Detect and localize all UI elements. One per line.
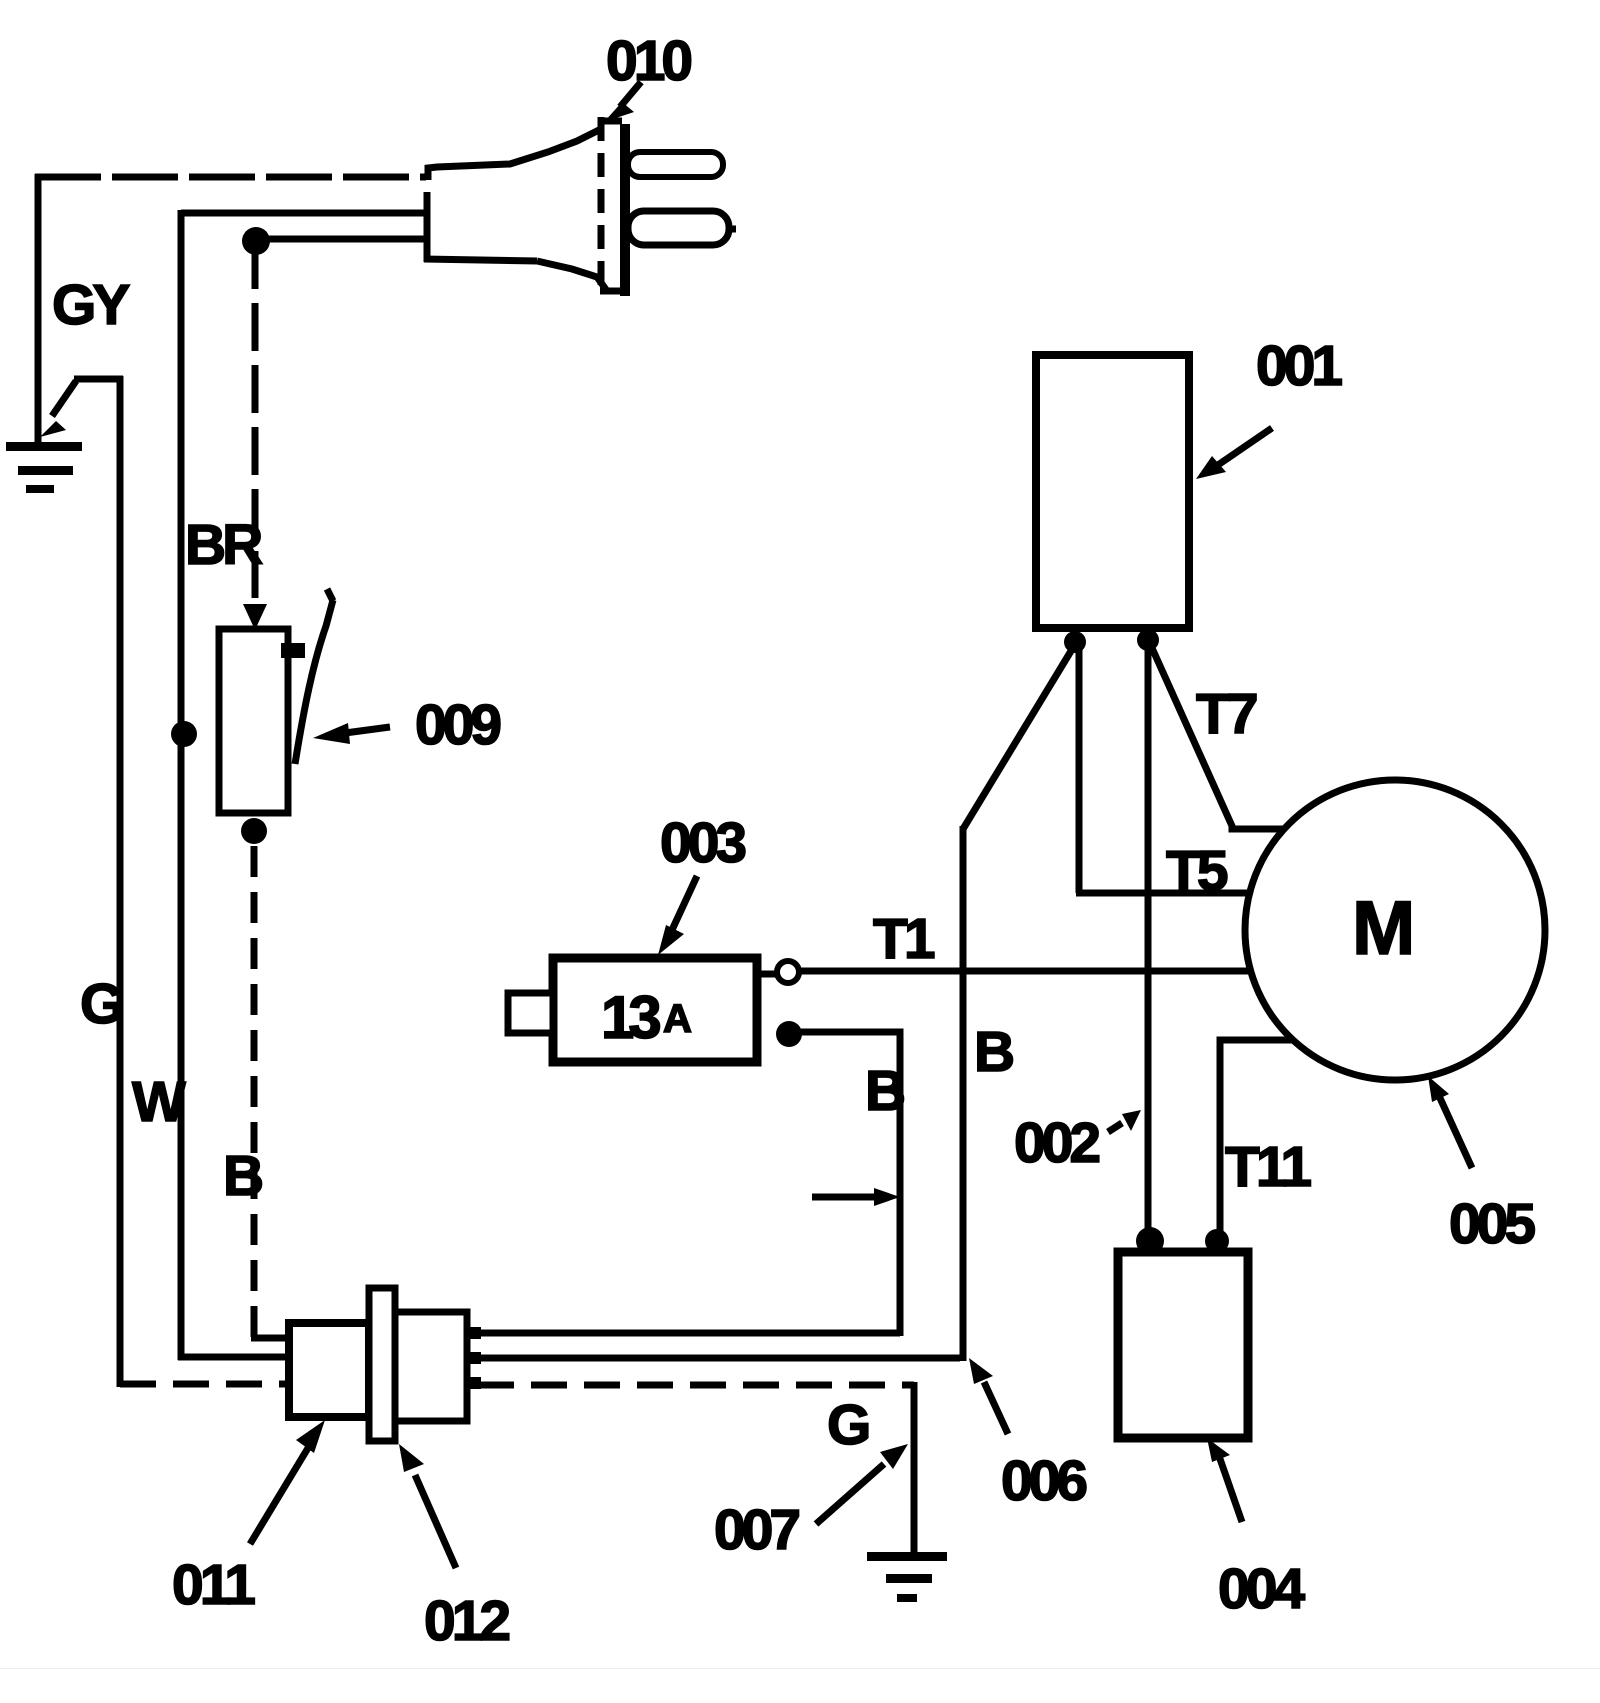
svg-text:B: B: [974, 1020, 1013, 1084]
wire W top horizontal (to plug): [181, 210, 428, 217]
003 upper terminal circle: [757, 961, 799, 983]
label 006 with arrow: [969, 1358, 1086, 1513]
node junction BR (on plug middle lead): [242, 227, 270, 255]
svg-text:004: 004: [1218, 1557, 1305, 1621]
wire BR vertical dashed to thermal switch: [252, 241, 259, 598]
svg-text:GY: GY: [52, 273, 130, 337]
svg-text:13: 13: [601, 984, 660, 1051]
connector plug 012 body: [395, 1312, 467, 1421]
svg-text:006: 006: [1001, 1449, 1086, 1513]
label 007 with arrow: [714, 1444, 908, 1562]
wire B vertical dashed below 009: [251, 846, 258, 1341]
switch 001 body: [1036, 355, 1189, 628]
wire B inner (003 to connector): [789, 1032, 900, 1336]
svg-text:B: B: [865, 1059, 904, 1123]
label 004 with arrow: [1207, 1438, 1305, 1621]
012 terminal stubs: [465, 1327, 481, 1389]
motor 005 circle: [1245, 780, 1545, 1080]
node 003 lower terminal: [776, 1021, 802, 1047]
wire T1: [799, 968, 1252, 975]
svg-text:G: G: [827, 1393, 868, 1457]
svg-text:M: M: [1352, 886, 1415, 971]
wire GY top horizontal (mains to plug): [35, 174, 426, 181]
svg-text:B: B: [223, 1144, 262, 1208]
node below 009: [241, 818, 267, 844]
009 lever: [295, 600, 333, 764]
wire harness bottom (G) dashed from connector: [478, 1382, 914, 1389]
ground symbol left: [6, 442, 82, 493]
connector body 011: [289, 1323, 369, 1417]
svg-text:BR: BR: [185, 513, 262, 577]
wire B outer vertical (to motor circuit): [960, 826, 967, 1361]
label 011 with arrow: [172, 1420, 325, 1617]
node capacitor left terminal: [1136, 1227, 1164, 1255]
svg-text:005: 005: [1449, 1192, 1535, 1256]
label 010 with arrow: [604, 29, 691, 122]
label 001 with arrow: [1196, 334, 1342, 479]
plug prong upper: [628, 152, 723, 177]
wire T7 diagonal: [1152, 648, 1288, 829]
wire BR short horizontal to plug: [256, 236, 428, 243]
label 005 with arrow: [1428, 1076, 1535, 1256]
wire GY vertical: [35, 174, 42, 445]
svg-text:002: 002: [1014, 1111, 1099, 1175]
plug face plate: [620, 124, 630, 296]
small arrow pointing at B wire: [812, 1188, 900, 1206]
009 lever hook: [327, 589, 333, 601]
wire T11: [1220, 1040, 1295, 1232]
label 009 with arrow: [313, 693, 500, 757]
svg-text:T1: T1: [873, 907, 935, 971]
svg-text:003: 003: [660, 811, 745, 875]
svg-text:T7: T7: [1196, 682, 1257, 746]
wire W vertical: [178, 210, 185, 1360]
connector plug 012 tab: [369, 1288, 395, 1441]
wire G drop to ground: [911, 1382, 918, 1552]
node on W wire: [171, 721, 197, 747]
plug face dashed line: [598, 117, 605, 292]
svg-text:009: 009: [415, 693, 500, 757]
thermal switch 009 body: [219, 629, 288, 813]
svg-text:W: W: [132, 1070, 186, 1134]
label 002 with arrow: [1014, 1110, 1141, 1175]
wire G hook diagonal with arrowhead into ground: [40, 379, 123, 437]
wire B jog into connector: [251, 1335, 292, 1342]
wire G vertical (left side): [117, 376, 124, 1387]
fuse 003 body: [553, 958, 757, 1062]
svg-text:T5: T5: [1166, 839, 1228, 903]
wire harness middle (B) from connector: [478, 1355, 960, 1362]
svg-text:007: 007: [714, 1498, 799, 1562]
page edge line: [0, 1668, 1600, 1669]
003 left cap: [508, 993, 553, 1033]
node 001 right terminal: [1137, 629, 1159, 651]
wire harness top (B) from connector: [478, 1330, 900, 1337]
ground symbol right: [867, 1552, 947, 1602]
svg-text:011: 011: [172, 1553, 255, 1617]
svg-text:G: G: [80, 972, 121, 1036]
node 001 left terminal: [1064, 631, 1086, 653]
arrowhead into 009: [243, 604, 267, 630]
wire 002 vertical: [1145, 648, 1152, 1232]
label 012 with arrow: [399, 1444, 509, 1653]
wire W bottom horizontal into connector: [178, 1354, 292, 1361]
wire diagonal B to switch 001 left terminal: [963, 651, 1071, 829]
plug P010 body outline: [424, 121, 630, 291]
009 pivot blob: [281, 643, 305, 658]
capacitor 004 body: [1118, 1252, 1248, 1438]
svg-text:012: 012: [424, 1589, 509, 1653]
svg-text:010: 010: [606, 29, 691, 93]
wire G bottom horizontal dashed into connector: [120, 1381, 292, 1388]
svg-text:001: 001: [1256, 334, 1342, 398]
svg-text:A: A: [663, 997, 692, 1041]
label 003 with arrow: [658, 811, 745, 955]
wire T5: [1076, 646, 1083, 893]
svg-text:T11: T11: [1225, 1135, 1311, 1199]
node capacitor right terminal: [1205, 1229, 1229, 1253]
plug prong lower: [628, 211, 736, 245]
value label 13A: [601, 984, 692, 1051]
